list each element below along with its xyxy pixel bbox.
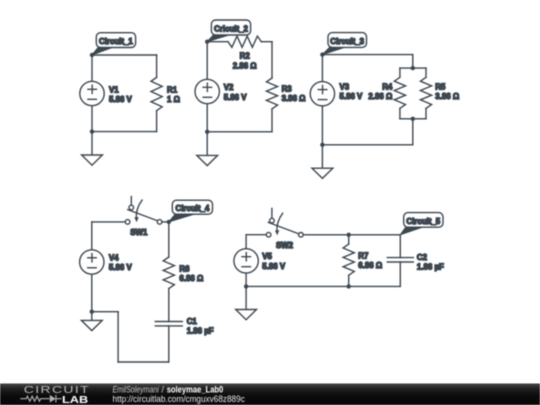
logo resistor-diode squiggle [20,395,61,403]
svg-text:V2: V2 [224,83,234,92]
wire circuit3 bottom bar [400,118,426,120]
wire circuit5 bottom rail [246,285,400,287]
wire circuit4 R6-C1 lead [168,289,170,322]
svg-text:R3: R3 [282,85,293,94]
label Circuit_5 [400,213,443,235]
resistor R1 [151,77,162,110]
wire circuit1 left upper [91,55,93,81]
value label SW2 [276,241,294,250]
wire circuit2 left lower [206,104,208,132]
switch SW1 blade [128,210,158,221]
svg-text:1.86 µF: 1.86 µF [187,327,214,336]
svg-text:V3: V3 [340,83,350,92]
wire circuit4 R6 upper lead [168,222,170,257]
svg-text:/: / [159,384,167,394]
svg-text:3.86 Ω: 3.86 Ω [435,92,459,101]
switch SW1 throw terminal [129,205,134,210]
wire circuit4 V4 upper lead [91,222,93,250]
wire SW1 left wire [92,221,126,223]
svg-text:R4: R4 [382,83,393,92]
wire circuit2 top-left stub [207,41,228,43]
svg-text:Circuit_5: Circuit_5 [406,217,440,226]
wire circuit3 bottom [322,144,412,146]
ground circuit1 [82,132,103,166]
wire circuit3 left upper [321,55,323,82]
resistor R2 [228,36,261,47]
voltage source V4 [80,250,104,274]
svg-text:V4: V4 [109,253,119,262]
value label V1 [109,86,133,105]
svg-text:6.86 Ω: 6.86 Ω [358,261,382,270]
wire circuit4 bottom riser [117,312,119,362]
wire R4 upper stub [399,68,401,77]
footer bar background [0,384,540,405]
node circuit5 R7 bottom [347,284,351,288]
svg-text:6.86 Ω: 6.86 Ω [179,274,203,283]
wire circuit2 right upper lead [271,42,273,78]
svg-text:EmilSoleymani: EmilSoleymani [113,384,160,394]
label Cricuit_2 [207,20,250,42]
svg-text:R1: R1 [167,86,178,95]
value label V5 [262,252,286,271]
voltage source V3 [310,82,334,106]
label Circuit_3 [322,33,366,55]
switch SW1 common terminal [157,220,162,225]
svg-text:Circuit_4: Circuit_4 [176,204,210,213]
wire circuit4 bottom [118,361,169,363]
wire circuit3 top [322,54,412,56]
svg-text:5.86 V: 5.86 V [340,92,364,101]
switch SW2 actuator arrow [275,213,283,235]
ground circuit3 [312,145,333,179]
svg-text:Circuit_3: Circuit_3 [330,37,364,46]
wire circuit2 bottom [207,131,272,133]
voltage source V1 [80,81,104,105]
switch SW2 blade [268,222,299,234]
svg-text:R2: R2 [240,52,251,61]
label Circuit_4 [169,200,213,222]
wire circuit1 right upper lead [156,55,158,77]
svg-text:2.86 Ω: 2.86 Ω [233,61,257,70]
wire circuit5 V5 branch lower [245,273,247,286]
wire circuit3 trunk upper [412,55,414,69]
wire circuit4 bottom left [92,311,118,313]
wire circuit5 R7 upper lead [348,235,350,244]
node circuit3 bottom-left [320,143,324,147]
node circuit4 bottom-left [90,310,94,314]
node circuit5 R7 top [347,233,351,237]
svg-text:5.86 V: 5.86 V [109,263,133,272]
node circuit3 par-bottom [411,117,415,121]
node circuit5 bottom-left [244,284,248,288]
value label SW1 [130,228,148,237]
svg-text:3.86 Ω: 3.86 Ω [282,94,306,103]
node circuit2 top-left [205,40,209,44]
value label V3 [340,83,364,102]
label Circuit_1 [92,33,136,55]
wire circuit3 top bar [400,67,426,69]
wire circuit5 top rail [303,234,400,236]
voltage source V2 [195,79,219,103]
node circuit1 bottom-left [90,129,94,133]
node circuit4 switch-right [167,220,171,224]
svg-text:http://circuitlab.com/cmguxv68: http://circuitlab.com/cmguxv68z889c [113,394,246,404]
switch SW1 left terminal [125,220,130,225]
svg-text:V1: V1 [109,86,119,95]
wire circuit5 R7 lower lead [348,275,350,286]
wire SW2 left wire [246,234,266,236]
resistor R4 [394,77,405,108]
wire circuit5 C2 upper lead [399,235,401,258]
value label R2 [233,52,257,71]
value label V4 [109,253,133,272]
ground circuit5 [236,286,257,319]
wire circuit3 left lower [321,106,323,145]
wire R4 lower stub [399,108,401,118]
wire SW1 common to node [162,221,169,223]
capacitor C1 [155,322,182,326]
resistor R6 [163,257,174,289]
switch SW1 actuator arrow [134,200,142,222]
svg-text:Circuit_1: Circuit_1 [99,37,133,46]
wire SW2 top stub [271,208,273,218]
value label R6 [179,264,203,283]
wire circuit1 right lower lead [156,111,158,132]
svg-text:C1: C1 [187,317,198,326]
resistor R5 [420,77,431,108]
wire circuit5 V5 branch upper [245,235,247,249]
resistor R3 [266,78,277,109]
wire circuit2 top-right stub [261,41,272,43]
wire circuit5 C2 lower lead [399,262,401,286]
ground circuit2 [197,132,218,166]
value label R7 [358,251,382,270]
wire R5 lower stub [425,108,427,118]
wire circuit4 C1 lower lead [168,326,170,362]
switch SW2 left terminal [266,232,271,237]
svg-text:R6: R6 [179,264,190,273]
ground circuit4 [81,312,102,331]
svg-text:C2: C2 [417,253,428,262]
wire R5 upper stub [425,68,427,77]
value label R4 [368,83,392,102]
node circuit3 top-left [320,52,324,56]
switch SW2 common terminal [299,233,304,238]
wire circuit1 bottom [92,131,157,133]
node circuit2 bottom-left [205,130,209,134]
svg-text:R5: R5 [435,83,446,92]
svg-text:SW2: SW2 [276,241,294,250]
svg-text:V5: V5 [262,252,272,261]
voltage source V5 [234,249,258,273]
svg-text:1 Ω: 1 Ω [167,95,180,104]
value label V2 [224,83,248,102]
value label R5 [435,83,459,102]
value label R3 [282,85,306,104]
capacitor C2 [387,258,413,262]
value label C1 [187,317,214,336]
node circuit1 top-left [90,53,94,57]
svg-text:R7: R7 [358,251,369,260]
wire SW1 top stub [130,197,132,206]
svg-text:Cricuit_2: Cricuit_2 [214,24,248,33]
wire circuit2 right lower lead [271,109,273,132]
svg-text:SW1: SW1 [130,228,148,237]
svg-text:5.86 V: 5.86 V [109,95,133,104]
svg-text:soleymae_Lab0: soleymae_Lab0 [167,384,224,394]
wire circuit4 V4 lower lead [91,274,93,312]
svg-text:5.86 V: 5.86 V [224,93,248,102]
wire circuit1 top [92,54,157,56]
value label R1 [167,86,180,105]
value label C2 [417,253,444,272]
switch SW2 throw terminal [270,218,275,223]
svg-text:1.86 µF: 1.86 µF [417,263,444,272]
wire circuit2 left upper [206,42,208,80]
svg-text:LAB: LAB [62,395,88,405]
wire circuit1 left lower [91,106,93,132]
svg-text:2.86 Ω: 2.86 Ω [368,92,392,101]
resistor R7 [343,244,354,275]
svg-text:5.86 V: 5.86 V [262,262,286,271]
node circuit3 par-top [411,66,415,70]
wire circuit3 trunk lower [412,119,414,145]
